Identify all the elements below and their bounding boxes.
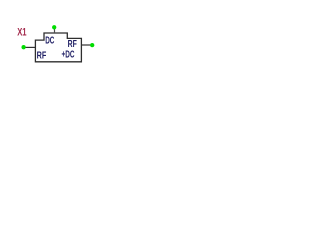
wire right pin stub	[81, 44, 91, 46]
svg-text:X1: X1	[17, 26, 26, 38]
svg-text:DC: DC	[45, 36, 54, 47]
wire top pin stub	[54, 29, 56, 33]
svg-text:RF: RF	[68, 39, 77, 50]
node RF pin dot	[21, 45, 25, 49]
svg-text:+DC: +DC	[62, 50, 75, 61]
wire left pin stub	[24, 46, 35, 48]
node RF+DC pin dot	[90, 43, 94, 47]
bias tee X1 symbol body	[35, 33, 81, 62]
node DC pin dot	[52, 25, 56, 29]
svg-text:RF: RF	[37, 51, 47, 62]
